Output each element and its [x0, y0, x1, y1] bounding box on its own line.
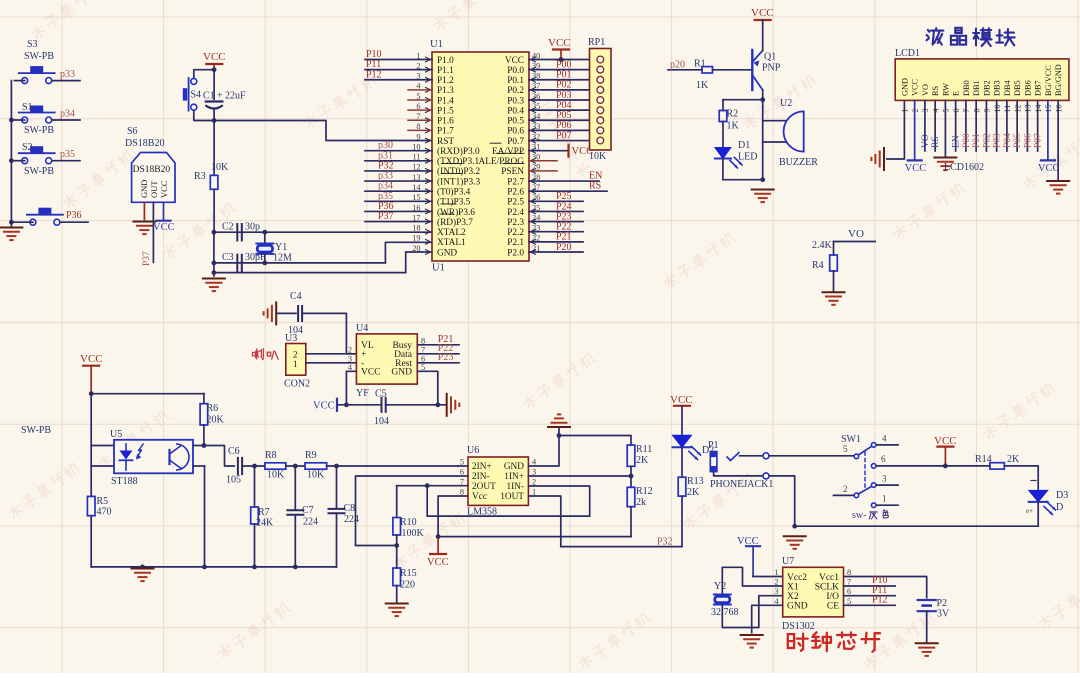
svg-text:U1: U1 — [432, 263, 445, 274]
svg-text:p20: p20 — [670, 60, 685, 71]
resistor R2 1K — [719, 100, 739, 147]
wire U5 left leads — [91, 394, 114, 497]
svg-text:SW-PB: SW-PB — [24, 125, 54, 136]
svg-text:U4: U4 — [356, 323, 368, 334]
ground — [1047, 181, 1069, 194]
svg-text:2IN-: 2IN- — [472, 472, 490, 482]
svg-text:P1.1: P1.1 — [437, 66, 454, 76]
resistor R13 2K — [678, 447, 703, 546]
svg-text:DB3: DB3 — [993, 80, 1002, 96]
wire LCD pin12 node P05 — [1013, 100, 1023, 151]
svg-text:224: 224 — [344, 514, 359, 525]
ground — [823, 292, 845, 305]
svg-text:R8: R8 — [265, 450, 277, 461]
wire node p34 — [365, 181, 432, 192]
wire node P12 — [365, 69, 432, 80]
svg-text:1K: 1K — [696, 80, 709, 91]
svg-text:DB0: DB0 — [962, 80, 971, 96]
svg-text:C3: C3 — [222, 252, 234, 263]
svg-text:GND: GND — [787, 602, 808, 612]
wire U6 pin7 2OUT — [425, 483, 468, 488]
wire VCC to C5 — [337, 402, 382, 407]
svg-text:+: + — [217, 91, 223, 102]
svg-text:XTAL1: XTAL1 — [437, 238, 466, 248]
svg-text:2: 2 — [843, 484, 848, 494]
capacitor C5 104 — [374, 389, 389, 428]
wire node p20 — [668, 60, 702, 71]
wire battery to gnd — [926, 611, 928, 642]
svg-text:1: 1 — [293, 359, 298, 369]
svg-text:P0.1: P0.1 — [507, 76, 524, 86]
wire VCC junction to R14 — [943, 464, 990, 469]
svg-text:104: 104 — [374, 416, 389, 427]
svg-text:VCC: VCC — [911, 78, 920, 96]
wire node p30 — [365, 140, 432, 151]
ground — [741, 635, 763, 648]
wire LCD pin5 RW to ground — [944, 100, 946, 156]
connector U3 CON2 — [284, 333, 310, 390]
svg-text:(RD)P3.7: (RD)P3.7 — [437, 217, 473, 228]
svg-text:LCD1602: LCD1602 — [944, 162, 984, 173]
resistor pack RP1 10K — [588, 37, 611, 162]
resistor R12 2k — [627, 476, 652, 537]
svg-text:U3: U3 — [285, 333, 297, 344]
resistor R7 24K — [251, 466, 274, 567]
wire collector node to C6 — [204, 446, 235, 467]
svg-text:2OUT: 2OUT — [472, 482, 496, 492]
wire U1 stub pin30 — [529, 160, 557, 162]
wire node P02 — [529, 80, 590, 91]
battery P2 3V — [918, 598, 950, 620]
wire U5 emitter to rail — [193, 466, 205, 567]
svg-text:RS: RS — [931, 136, 941, 148]
svg-text:C5: C5 — [375, 389, 387, 400]
svg-text:1: 1 — [774, 568, 778, 577]
wire node p35 — [365, 191, 432, 202]
resistor R5 470 — [87, 496, 111, 567]
svg-text:P1.0: P1.0 — [437, 56, 454, 66]
wire C4 to U4 VL — [302, 313, 356, 353]
svg-text:C8: C8 — [344, 503, 356, 514]
svg-text:DB4: DB4 — [1003, 79, 1012, 96]
svg-text:U6: U6 — [467, 445, 479, 456]
svg-text:P1.3: P1.3 — [437, 86, 454, 96]
node Y1 top — [262, 230, 267, 235]
wire VCC to S4 — [194, 70, 214, 79]
svg-text:P1.6: P1.6 — [437, 117, 454, 127]
wire XTAL1 net — [214, 242, 432, 263]
svg-text:CON2: CON2 — [284, 379, 310, 390]
svg-text:S2: S2 — [22, 142, 33, 153]
svg-text:DB6: DB6 — [1023, 80, 1032, 96]
svg-text:R4: R4 — [812, 260, 824, 271]
svg-text:S4: S4 — [191, 90, 202, 101]
capacitor C7 224 — [287, 466, 318, 567]
svg-text:VCC: VCC — [313, 401, 335, 412]
wire node P22 — [529, 222, 583, 233]
transistor Q1 PNP — [752, 50, 780, 90]
power VCC — [153, 221, 175, 233]
svg-text:2IN+: 2IN+ — [472, 462, 492, 472]
svg-text:20K: 20K — [207, 415, 225, 426]
switch S4 — [183, 78, 201, 111]
resistor R15 220 — [393, 546, 417, 603]
wire LCD pin9 node P02 — [982, 100, 992, 151]
svg-text:P0.2: P0.2 — [507, 86, 524, 96]
svg-text:R14: R14 — [975, 454, 992, 465]
wire D1 to gnd rail — [723, 177, 765, 182]
power VCC — [569, 145, 594, 158]
svg-text:VO: VO — [921, 134, 931, 148]
power VCC — [427, 537, 449, 568]
svg-text:RS: RS — [589, 181, 601, 192]
ground — [203, 279, 225, 292]
resistor R4 2.4K — [812, 240, 837, 291]
wire Q1 emitter to VCC — [762, 20, 764, 51]
wire LCD pin13 node P06 — [1023, 100, 1033, 151]
svg-text:R13: R13 — [687, 476, 704, 487]
power VCC — [670, 394, 693, 406]
wire node P20 — [529, 242, 583, 253]
svg-text:C7: C7 — [302, 505, 314, 516]
ground — [133, 222, 155, 235]
wire S4 bottom — [194, 110, 214, 120]
resistor R3 10K — [194, 121, 229, 233]
svg-text:C6: C6 — [228, 446, 240, 457]
wire U6 pin3 1IN+ — [528, 474, 633, 479]
wire node P11 — [844, 585, 896, 596]
power VCC — [751, 7, 774, 20]
svg-text:(RXD)P3.0: (RXD)P3.0 — [437, 146, 480, 157]
svg-text:224: 224 — [303, 517, 318, 528]
svg-text:P06: P06 — [1023, 133, 1033, 148]
svg-text:220: 220 — [400, 580, 415, 591]
wire gnd line to D3 — [795, 525, 1038, 527]
wire LCD pin14 node P07 — [1034, 100, 1044, 151]
svg-text:R11: R11 — [636, 444, 652, 455]
svg-text:P04: P04 — [1003, 133, 1013, 148]
ground — [871, 148, 884, 170]
wire jack tip to SW1 — [740, 453, 854, 459]
crystal Y2 32.768 — [711, 581, 739, 618]
svg-text:4: 4 — [882, 434, 887, 444]
svg-text:R1: R1 — [694, 59, 706, 70]
svg-text:VCC: VCC — [505, 56, 524, 66]
svg-text:P0.5: P0.5 — [507, 117, 524, 127]
svg-text:3V: 3V — [937, 609, 950, 620]
svg-text:VCC: VCC — [670, 394, 693, 406]
svg-text:DS18B20: DS18B20 — [125, 138, 164, 149]
ground — [916, 643, 938, 656]
node RST top junction — [212, 67, 217, 72]
svg-text:DB5: DB5 — [1013, 80, 1022, 96]
svg-text:P2.4: P2.4 — [507, 208, 524, 218]
wire pin8 to R12 — [438, 536, 631, 538]
crystal Y1 12M — [256, 232, 292, 263]
svg-text:U7: U7 — [782, 556, 794, 567]
svg-text:1OUT: 1OUT — [500, 492, 524, 502]
wire node P07 — [529, 130, 590, 141]
svg-text:R5: R5 — [97, 496, 109, 507]
svg-text:p34: p34 — [60, 109, 75, 120]
svg-text:24K: 24K — [256, 518, 274, 529]
power VCC — [548, 37, 571, 60]
svg-text:P1.2: P1.2 — [437, 76, 454, 86]
svg-text:SW-PB: SW-PB — [24, 51, 54, 62]
svg-text:C1: C1 — [203, 91, 215, 102]
svg-text:P0.7: P0.7 — [507, 137, 524, 147]
svg-text:VCC: VCC — [1038, 163, 1060, 174]
wire U4 pin4 VCC — [346, 371, 356, 405]
diode D3 LED — [1026, 481, 1068, 527]
wire LCD pin15 VCC — [1047, 100, 1049, 160]
capacitor C4 104 — [276, 291, 303, 336]
IC U1 AT89C51 MCU — [412, 39, 541, 274]
svg-text:2K: 2K — [1007, 454, 1020, 465]
wire node P06 — [529, 120, 590, 131]
svg-text:VCC: VCC — [548, 37, 571, 49]
svg-text:(TXD)P3.1: (TXD)P3.1 — [437, 156, 479, 167]
wire U6 pin1 1OUT — [528, 496, 560, 547]
wire LCD pin4 node RS — [931, 100, 941, 151]
power VCC — [1038, 160, 1060, 174]
resistor R11 2K — [627, 444, 652, 476]
svg-text:BG/GND: BG/GND — [1054, 64, 1063, 96]
svg-text:22uF: 22uF — [225, 91, 246, 102]
svg-text:SCLK: SCLK — [815, 582, 839, 592]
ground — [264, 302, 277, 324]
resistor R6 20K — [200, 394, 224, 446]
power VCC — [80, 353, 103, 394]
ground — [548, 414, 570, 435]
svg-text:I/O: I/O — [826, 592, 839, 602]
wire node p31 — [365, 150, 432, 161]
svg-text:DS1302: DS1302 — [782, 621, 815, 632]
switch SW1 — [834, 434, 944, 508]
ground — [752, 190, 774, 203]
svg-text:RST: RST — [437, 137, 454, 147]
svg-text:2K: 2K — [687, 487, 700, 498]
svg-text:P2.2: P2.2 — [507, 228, 524, 238]
svg-text:P1: P1 — [708, 440, 719, 451]
svg-text:P2.1: P2.1 — [507, 238, 524, 248]
wire node P25 — [529, 191, 583, 202]
svg-text:P05: P05 — [1013, 133, 1023, 148]
svg-text:E: E — [952, 91, 961, 96]
wire U5 collector to R6 — [193, 443, 206, 448]
wire node P11 — [365, 59, 432, 70]
svg-text:12M: 12M — [273, 253, 292, 264]
connector LCD1 LCD1602 — [895, 48, 1069, 113]
svg-text:P07: P07 — [556, 130, 572, 141]
svg-text:U5: U5 — [110, 429, 122, 440]
svg-text:SW-PB: SW-PB — [21, 425, 51, 436]
svg-text:2k: 2k — [636, 497, 646, 508]
capacitor C2 30p — [222, 222, 260, 241]
wire node P37 — [365, 211, 432, 222]
svg-text:VCC: VCC — [361, 368, 381, 378]
wire U1 GND return — [214, 252, 432, 273]
ground — [132, 569, 154, 582]
svg-text:S6: S6 — [127, 126, 138, 137]
diode D1 LED — [715, 140, 758, 180]
wire Y2 to X2 — [722, 596, 782, 628]
wire node EN — [529, 171, 602, 182]
wire node P23 — [529, 211, 583, 222]
svg-text:P37: P37 — [378, 211, 394, 222]
resistor R14 2K — [975, 454, 1020, 469]
svg-text:GND: GND — [139, 180, 149, 198]
wire node P32 — [561, 537, 682, 548]
wire LCD pin16 to ground — [1057, 100, 1059, 179]
svg-text:32.768: 32.768 — [711, 607, 739, 618]
wire RST net to U1 pin9 — [214, 121, 432, 141]
svg-text:VCC: VCC — [203, 51, 226, 63]
svg-text:LCD1: LCD1 — [895, 48, 920, 59]
svg-text:RS: RS — [931, 85, 940, 96]
node RST bottom junction — [212, 118, 217, 123]
svg-text:P23: P23 — [438, 352, 454, 363]
wire S6 VCC pin — [163, 202, 165, 219]
wire U4 pin5 GND — [417, 371, 438, 405]
svg-text:P37: P37 — [142, 251, 152, 266]
svg-text:P1.4: P1.4 — [437, 96, 454, 106]
svg-text:(INT1)P3.3: (INT1)P3.3 — [437, 176, 480, 187]
svg-text:ALE/PROG: ALE/PROG — [479, 157, 525, 167]
wire U1 stub pin29 — [529, 170, 557, 172]
wire U7 pin8 to battery — [844, 577, 927, 599]
svg-text:2: 2 — [348, 345, 352, 354]
buzzer U2 — [763, 98, 819, 168]
wire node P36 — [365, 201, 432, 212]
svg-text:3: 3 — [882, 474, 887, 484]
svg-text:VO: VO — [848, 228, 864, 240]
svg-text:P12: P12 — [366, 69, 382, 80]
svg-text:ST188: ST188 — [111, 476, 138, 487]
svg-text:VCC: VCC — [427, 557, 449, 568]
IC U4 voice module — [348, 323, 425, 399]
svg-text:SW-PB: SW-PB — [24, 166, 54, 177]
svg-text:P32: P32 — [657, 537, 673, 548]
svg-text:VCC: VCC — [153, 222, 175, 233]
wire XTAL2 net — [214, 231, 432, 233]
wire node p34 — [14, 109, 80, 121]
svg-text:P00: P00 — [962, 133, 972, 148]
svg-text:C2: C2 — [222, 222, 234, 233]
svg-text:VCC: VCC — [159, 180, 169, 198]
svg-text:Q1: Q1 — [764, 52, 776, 63]
svg-text:PNP: PNP — [762, 63, 781, 74]
label speaker (laba) — [253, 349, 279, 360]
svg-text:P2.3: P2.3 — [507, 218, 524, 228]
svg-text:DB1: DB1 — [972, 80, 981, 96]
svg-text:R6: R6 — [207, 403, 219, 414]
svg-text:P01: P01 — [972, 133, 982, 148]
svg-text:e+: e+ — [1026, 507, 1033, 515]
svg-text:2.4K: 2.4K — [812, 240, 833, 251]
power VCC — [934, 435, 957, 466]
svg-text:P2.0: P2.0 — [507, 248, 524, 258]
node XTAL2 junction — [212, 230, 217, 235]
svg-text:(WR)P3.6: (WR)P3.6 — [437, 207, 475, 218]
svg-text:VCC: VCC — [80, 353, 103, 365]
svg-text:P1.5: P1.5 — [437, 106, 454, 116]
wire LCD pin10 node P03 — [993, 100, 1003, 151]
svg-text:R7: R7 — [258, 507, 270, 518]
label sw-grey — [852, 510, 888, 521]
svg-text:1IN+: 1IN+ — [504, 472, 524, 482]
capacitor C8 224 — [329, 466, 360, 567]
switch S2 — [19, 142, 55, 177]
svg-text:D1: D1 — [738, 140, 750, 151]
svg-text:X2: X2 — [787, 592, 799, 602]
svg-text:Vcc2: Vcc2 — [787, 573, 807, 583]
wire U3 pin2 to U4 — [306, 353, 357, 355]
ground — [0, 228, 22, 241]
wire U6 pin6 stub — [458, 475, 468, 477]
resistor R9 10K — [305, 450, 327, 481]
wire node P32 — [365, 160, 432, 171]
wire node P24 — [529, 201, 583, 212]
wire node P37 out pin — [142, 202, 153, 266]
svg-text:P2: P2 — [937, 598, 948, 609]
svg-text:Y1: Y1 — [275, 242, 287, 253]
svg-text:p33: p33 — [60, 69, 75, 80]
wire node P10 — [844, 575, 896, 586]
svg-text:S3: S3 — [27, 39, 38, 50]
svg-text:DB2: DB2 — [982, 80, 991, 96]
power VCC — [203, 51, 226, 70]
svg-text:sw-: sw- — [852, 510, 866, 521]
title LCD module (liquid crystal) — [927, 28, 1015, 46]
svg-text:20: 20 — [412, 244, 420, 253]
wire R10 to pin7 — [397, 485, 428, 487]
sensor S6 DS18B20 — [125, 126, 175, 202]
wire U6 pin2 feedback loop — [427, 486, 590, 516]
wire left button rail — [9, 81, 14, 226]
resistor R8 10K — [265, 450, 286, 481]
wire node P03 — [529, 90, 590, 101]
wire C5 to ground — [386, 402, 447, 407]
wire U6 pin8 VCC — [436, 496, 468, 539]
wire R8 to R9 — [286, 464, 305, 469]
ground — [447, 394, 460, 416]
wire node p35 — [14, 149, 80, 161]
svg-text:YF: YF — [356, 388, 369, 399]
svg-text:(T0)P3.4: (T0)P3.4 — [437, 186, 471, 197]
svg-text:P0.0: P0.0 — [507, 66, 524, 76]
diode D2 LED — [673, 406, 715, 460]
svg-text:P07: P07 — [1034, 133, 1044, 148]
op-amp U6 LM358 — [460, 445, 537, 518]
svg-text:R3: R3 — [194, 171, 206, 182]
wire LCD pin6 node EN — [952, 100, 962, 151]
svg-text:10K: 10K — [211, 162, 229, 173]
wire VCC to R6 — [91, 393, 204, 395]
svg-text:CE: CE — [827, 602, 839, 612]
svg-text:R2: R2 — [727, 109, 739, 120]
svg-text:P12: P12 — [872, 595, 888, 606]
svg-text:P02: P02 — [982, 133, 992, 148]
svg-text:R10: R10 — [400, 517, 417, 528]
wire Y2 to X1 — [722, 567, 782, 594]
wire VCC to U7 pin1 — [753, 576, 783, 578]
capacitor C6 105 — [226, 446, 242, 486]
svg-text:Vcc1: Vcc1 — [819, 573, 839, 583]
wire LCD pin2 VCC — [914, 100, 916, 160]
wire EA/VPP to VCC — [529, 150, 569, 152]
svg-text:LED: LED — [738, 152, 757, 163]
